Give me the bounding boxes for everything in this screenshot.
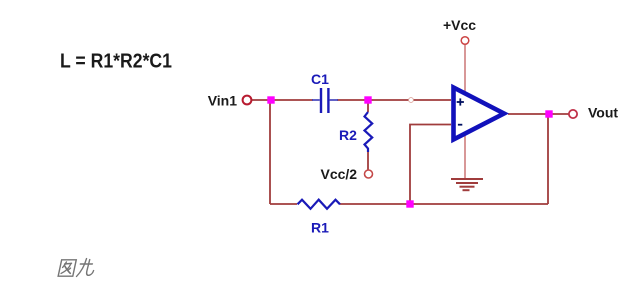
svg-text:Vout: Vout bbox=[588, 105, 618, 121]
svg-text:Vin1: Vin1 bbox=[208, 92, 238, 108]
svg-text:Vcc/2: Vcc/2 bbox=[321, 166, 358, 182]
svg-text:+Vcc: +Vcc bbox=[443, 17, 476, 33]
svg-text:C1: C1 bbox=[311, 71, 329, 87]
svg-text:R1: R1 bbox=[311, 219, 329, 235]
svg-text:L = R1*R2*C1: L = R1*R2*C1 bbox=[60, 51, 172, 73]
svg-text:R2: R2 bbox=[339, 127, 357, 143]
